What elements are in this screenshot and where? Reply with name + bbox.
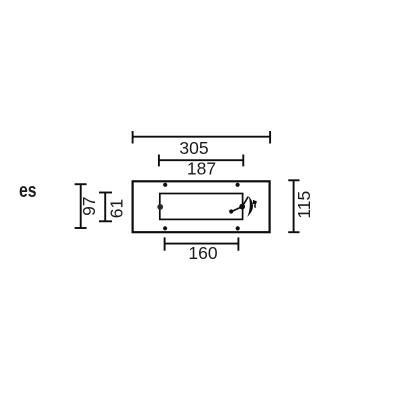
screw hole bottom-left <box>163 226 167 230</box>
dimension 305 right tick <box>269 131 271 144</box>
swing arc crescent <box>247 196 253 217</box>
dimension 97 top tick <box>75 183 87 185</box>
dimension 305 line <box>133 136 271 138</box>
svg-text:305: 305 <box>179 138 208 158</box>
svg-text:187: 187 <box>187 159 216 179</box>
dimension 97 line <box>80 184 82 228</box>
inner cutout rectangle 187x61 <box>160 194 243 220</box>
left hinge pin <box>157 204 163 210</box>
svg-text:61: 61 <box>107 199 127 218</box>
outer frame rectangle 305x115 <box>133 181 270 232</box>
svg-text:115: 115 <box>294 191 314 219</box>
dimension 305 left tick <box>132 131 134 144</box>
screw hole top-right <box>236 183 240 187</box>
svg-text:es: es <box>19 180 37 202</box>
dimension 160 left tick <box>164 237 166 250</box>
dimension 61 line <box>104 193 106 222</box>
dimension 97 bottom tick <box>75 227 87 229</box>
screw hole bottom-right <box>236 226 240 230</box>
rotation arrowhead <box>253 200 257 205</box>
dimension 61 bottom tick <box>99 220 112 222</box>
arrowhead tail <box>254 205 256 208</box>
svg-text:97: 97 <box>79 196 99 215</box>
dimension 61 top tick <box>99 192 112 194</box>
dimension 187 right tick <box>242 155 244 167</box>
lever arm up position <box>242 197 248 207</box>
lever pivot <box>239 204 245 210</box>
dimension 187 left tick <box>158 155 160 167</box>
lever arm down position <box>231 207 242 212</box>
dimension 115 line <box>293 180 295 232</box>
svg-text:160: 160 <box>188 243 217 263</box>
dimension 160 right tick <box>237 237 239 250</box>
dimension 187 line <box>159 159 243 161</box>
dimension 160 line <box>165 243 239 245</box>
dimension 115 bottom tick <box>288 231 299 233</box>
screw hole top-left <box>163 183 167 187</box>
dimension 115 top tick <box>288 179 299 181</box>
lever end knob <box>229 209 233 213</box>
